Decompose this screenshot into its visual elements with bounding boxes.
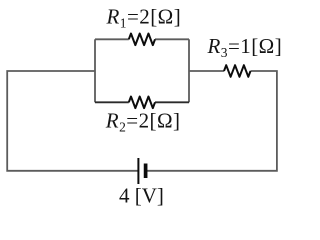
- wire: box left to outer left edge, down, along bottom to battery: [7, 71, 138, 171]
- svg-text:4 [V]: 4 [V]: [119, 183, 164, 207]
- battery long thin plate: [137, 158, 139, 184]
- svg-text:R1=2[Ω]: R1=2[Ω]: [106, 4, 182, 30]
- resistor R3 zigzag: [224, 65, 250, 77]
- wire: battery to bottom-right corner, up right side, left to R3: [147, 71, 277, 171]
- resistor R1 zigzag: [129, 34, 155, 46]
- parallel box top edge wires around R1: [95, 38, 189, 40]
- battery short thick plate: [144, 164, 148, 179]
- wire: R3 left end to parallel box right edge: [189, 70, 224, 72]
- svg-text:R3=1[Ω]: R3=1[Ω]: [207, 34, 283, 60]
- parallel box left vertical wire: [94, 39, 96, 102]
- parallel box right vertical wire: [188, 39, 190, 102]
- resistor R2 zigzag: [129, 97, 155, 109]
- parallel box bottom edge wires around R2 (darker): [95, 101, 189, 103]
- svg-text:R2=2[Ω]: R2=2[Ω]: [105, 108, 181, 134]
